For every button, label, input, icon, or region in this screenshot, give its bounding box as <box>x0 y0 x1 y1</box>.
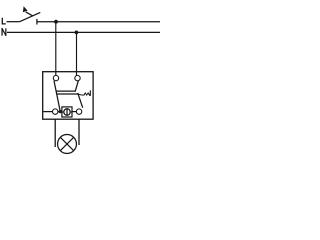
glow lamp bulb <box>64 109 70 115</box>
glow lamp housing <box>62 107 72 117</box>
wire N drop to switch box <box>76 32 78 75</box>
wire L left stub <box>7 21 20 23</box>
glow lamp left lead <box>62 111 63 113</box>
spring <box>78 93 90 95</box>
wire bottom-left terminal to glow lamp <box>58 111 62 113</box>
glow lamp right lead <box>70 111 71 113</box>
junction node on N <box>75 31 79 35</box>
terminal top-left <box>53 75 58 80</box>
wire from box left wall to bottom-left terminal <box>43 111 52 113</box>
lamp E1 cross stroke 1 <box>60 137 73 150</box>
contact blade to bottom-right terminal <box>78 93 83 108</box>
wire load right <box>78 119 80 145</box>
terminal bottom-left <box>53 109 58 114</box>
glow lamp electrode bar <box>66 108 68 115</box>
net label L <box>2 18 5 24</box>
contact blade from top-left terminal <box>54 81 60 112</box>
switch unit box <box>43 72 93 120</box>
junction node at glow lamp left <box>59 110 62 113</box>
switch S blade <box>20 12 41 21</box>
terminal top-right <box>75 75 80 80</box>
rocker bridge lower bar <box>57 93 78 95</box>
actuation arrow tail <box>26 12 33 16</box>
wire L drop to switch box <box>55 22 57 76</box>
lamp E1 cross stroke 2 <box>60 137 73 150</box>
wire N rail <box>7 31 160 33</box>
spring anchor tick <box>89 90 91 96</box>
lamp E1 circle <box>58 135 77 154</box>
wire glow lamp to bottom-right terminal <box>72 111 76 113</box>
wire load left <box>54 119 56 147</box>
rocker bridge upper bar <box>56 90 75 92</box>
wire L rail <box>37 21 160 23</box>
actuation arrow head <box>23 6 28 12</box>
contact blade from top-right terminal <box>75 81 78 92</box>
terminal bottom-right <box>76 109 81 114</box>
net label N <box>2 28 6 35</box>
switch S fixed contact tick <box>36 19 38 25</box>
junction node on L <box>54 20 58 24</box>
